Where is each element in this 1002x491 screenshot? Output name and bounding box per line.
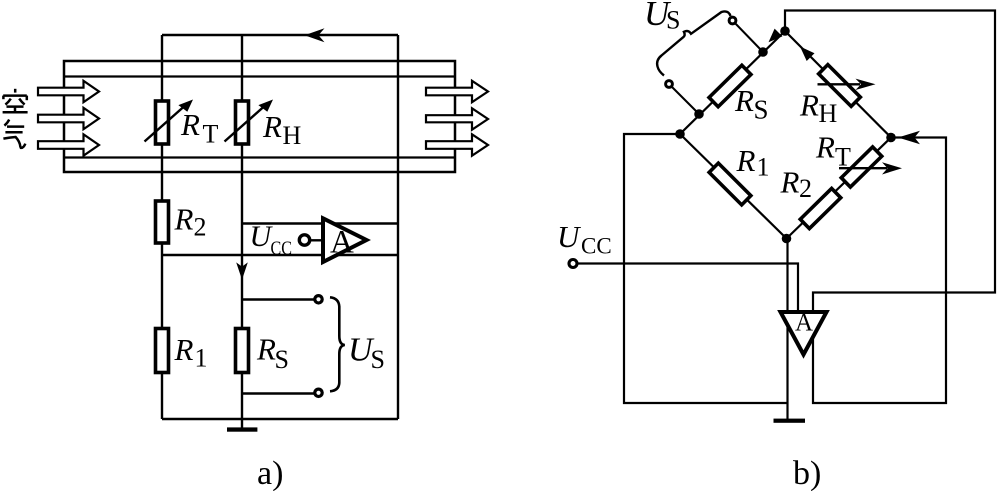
wire right vertical x=398 (fig a) — [397, 35, 399, 419]
svg-text:A: A — [330, 225, 354, 261]
arrow on T-R side pointing to top node — [800, 47, 815, 62]
arrow of variable resistor RH (fig b) — [818, 83, 861, 85]
op-amp A (fig b, pointing down) — [781, 312, 827, 355]
node dot left (fig b) — [675, 129, 685, 139]
wire left loop (fig b) — [624, 134, 788, 403]
resistor RS (fig a) — [236, 329, 249, 373]
wire upper US terminal to node1 (fig b) — [733, 21, 764, 53]
terminal US lower (fig b) — [666, 81, 673, 88]
wire UCC to amp (fig b) — [578, 264, 799, 313]
svg-text:R: R — [736, 143, 756, 178]
wire diamond side B-R (through R2, RT) — [787, 138, 892, 239]
arrow down on middle wire — [236, 262, 248, 279]
resistor RT (fig b, variable) — [841, 147, 881, 187]
ground bar (fig a) — [227, 427, 257, 431]
wire amp upper rail y=223.5 — [242, 222, 398, 224]
terminal UCC (fig a) — [299, 235, 309, 245]
svg-text:S: S — [754, 95, 769, 125]
air inflow arrow 1 — [38, 81, 99, 102]
svg-text:a): a) — [257, 455, 283, 491]
svg-text:R: R — [262, 109, 282, 144]
svg-text:H: H — [819, 99, 838, 128]
op-amp A (fig a) — [323, 218, 367, 262]
svg-text:R: R — [815, 130, 835, 165]
svg-text:R: R — [780, 165, 800, 200]
svg-text:T: T — [203, 120, 219, 149]
svg-text:R: R — [174, 202, 194, 237]
svg-text:H: H — [283, 121, 302, 150]
wire diamond side T-R (through RH) — [785, 31, 891, 138]
arrow of variable resistor RT (fig b) — [839, 167, 887, 169]
node dot right (fig b) — [886, 133, 896, 143]
svg-text:CC: CC — [271, 238, 293, 260]
svg-text:R: R — [174, 332, 194, 367]
label 气 (air char 2, hand-drawn) — [3, 120, 25, 148]
air inflow arrow 2 — [38, 108, 99, 129]
wire upper US tap y=299.5 — [242, 298, 314, 300]
arrow into right node pointing left — [898, 131, 920, 145]
air inflow arrow 3 — [38, 134, 99, 155]
wire diamond side T-L (through RS) — [680, 31, 785, 134]
node dot top (fig b) — [780, 26, 790, 36]
svg-text:1: 1 — [195, 344, 208, 373]
svg-text:1: 1 — [757, 153, 770, 182]
svg-text:CC: CC — [581, 234, 612, 259]
air outflow arrow 1 — [426, 81, 488, 102]
resistor RH (fig a, variable) — [236, 101, 249, 144]
svg-text:2: 2 — [194, 213, 207, 242]
terminal US upper (fig b) — [729, 17, 736, 24]
wire bridge bottom to ground — [786, 239, 788, 420]
svg-text:S: S — [371, 345, 385, 374]
svg-text:R: R — [256, 332, 276, 367]
wire middle vertical x=242 (fig a) — [241, 35, 243, 419]
duct inner top wall line — [64, 75, 455, 77]
svg-text:R: R — [180, 107, 200, 142]
svg-text:T: T — [835, 143, 851, 172]
node dot bottom (fig b) — [782, 234, 792, 244]
duct outer rectangle — [64, 61, 455, 172]
ground stem (fig a) — [241, 419, 243, 428]
resistor RS (fig b) — [709, 65, 751, 107]
arrow of variable resistor RH — [225, 107, 265, 142]
ground bar (fig b) — [774, 419, 806, 423]
resistor RH (fig b) — [819, 65, 861, 107]
resistor R2 (fig a) — [156, 201, 169, 243]
terminal US lower (fig a) — [315, 389, 322, 396]
terminal UCC (fig b) — [569, 260, 577, 268]
wire lower US terminal to node2 (fig b) — [669, 84, 699, 114]
svg-text:b): b) — [793, 455, 821, 491]
arrow on T-node1 segment pointing to node1 — [769, 29, 783, 43]
svg-text:U: U — [557, 219, 582, 254]
wire diamond side L-B (through R1) — [680, 134, 787, 239]
node dot 2 on upper-left side — [694, 109, 704, 119]
resistor R1 (fig b) — [709, 163, 751, 205]
wire left vertical x=162 (fig a) — [161, 35, 163, 419]
wire top loop from top node around right — [785, 11, 995, 404]
arrow on top wire pointing left — [305, 28, 325, 42]
svg-text:R: R — [799, 88, 819, 123]
svg-text:A: A — [795, 310, 813, 337]
wire top horizontal (fig a) — [162, 34, 398, 36]
air outflow arrow 2 — [426, 108, 488, 129]
resistor RT (fig a, variable) — [156, 101, 169, 144]
wire lower US tap y=394 — [242, 392, 314, 394]
node dot 1 on upper-left side — [758, 47, 768, 57]
wire bottom horizontal (fig a) — [162, 418, 398, 420]
terminal US upper (fig a) — [315, 296, 322, 303]
arrow of variable resistor RT — [145, 107, 185, 142]
brace US (fig a) — [330, 297, 345, 391]
svg-text:R: R — [734, 83, 754, 118]
resistor R2 (fig b) — [800, 188, 840, 228]
duct inner bottom wall line — [64, 156, 455, 158]
wire amp lower rail y=255 — [162, 254, 398, 256]
resistor R1 (fig a) — [156, 329, 169, 373]
svg-text:S: S — [666, 6, 680, 35]
brace US (fig b, rotated) — [657, 11, 730, 75]
svg-text:2: 2 — [799, 174, 812, 203]
air outflow arrow 3 — [426, 134, 488, 155]
wire UCC terminal to amp — [310, 239, 323, 241]
svg-text:S: S — [275, 345, 289, 374]
label 空 (air char 1, hand-drawn) — [3, 89, 28, 113]
